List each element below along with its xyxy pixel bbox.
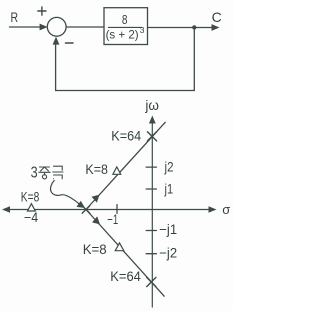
svg-text:σ: σ	[222, 202, 230, 217]
minus sign at summing junction	[66, 42, 74, 44]
svg-text:−4: −4	[24, 210, 39, 225]
svg-text:−1: −1	[107, 212, 118, 227]
svg-text:R: R	[11, 9, 19, 25]
svg-text:K=64: K=64	[111, 128, 141, 143]
wire block G to output C	[148, 27, 214, 29]
svg-text:3: 3	[31, 164, 38, 181]
wire R to summing junction	[10, 26, 43, 28]
node junction dot on output wire	[192, 25, 196, 29]
triangle marker K=8 real axis at -4	[28, 204, 36, 211]
svg-text:−j1: −j1	[159, 222, 177, 237]
marker X at K=64 upper (j-axis crossing)	[147, 132, 156, 141]
svg-text:(s + 2): (s + 2)	[106, 28, 139, 42]
plus sign at summing junction	[38, 7, 46, 15]
svg-text:j1: j1	[164, 182, 173, 197]
svg-text:K=8: K=8	[85, 162, 108, 177]
svg-text:jω: jω	[144, 98, 159, 113]
svg-text:−j2: −j2	[159, 245, 177, 260]
tick j2	[146, 166, 156, 168]
svg-text:3: 3	[140, 25, 145, 35]
block G: 8/(s+2)^3	[104, 8, 148, 45]
wire summing junction to block G	[66, 26, 104, 28]
fraction bar	[108, 26, 142, 28]
wire feedback vertical left into summing junction	[55, 42, 57, 91]
leader squiggle arrow from label to triple pole	[51, 181, 80, 205]
root locus upper branch (60 deg)	[86, 122, 165, 209]
wire feedback bottom horizontal	[56, 90, 195, 92]
triangle marker K=8 upper branch	[113, 167, 121, 174]
triangle marker K=8 lower branch	[115, 243, 124, 251]
tick -j2	[146, 253, 156, 255]
root locus lower branch (-60 deg)	[86, 210, 164, 297]
j-omega axis (imaginary axis)	[151, 121, 153, 307]
triple pole marker X at s=-2	[82, 206, 90, 214]
tick -1 on real axis	[116, 205, 118, 214]
wire feedback vertical right	[193, 27, 195, 90]
svg-text:j2: j2	[164, 159, 174, 174]
marker X at K=64 lower (j-axis crossing)	[147, 277, 156, 286]
svg-text:K=8: K=8	[83, 242, 107, 257]
annotation Korean glyph "geuk"	[53, 166, 63, 179]
arrowhead on lower branch	[92, 216, 100, 224]
arrowhead on upper branch	[92, 195, 100, 203]
svg-text:C: C	[212, 9, 222, 25]
svg-text:8: 8	[122, 12, 128, 27]
sigma axis (real axis)	[7, 209, 211, 211]
summing junction	[47, 17, 66, 36]
tick -j1	[146, 230, 156, 232]
svg-text:K=64: K=64	[110, 269, 141, 284]
annotation Korean glyph "jung"	[39, 167, 50, 179]
svg-text:K=8: K=8	[21, 189, 40, 204]
tick j1	[146, 188, 156, 190]
